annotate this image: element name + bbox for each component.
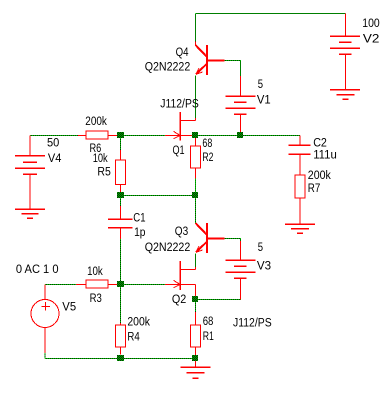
svg-text:Q2: Q2 [172,292,186,306]
svg-text:C1: C1 [133,210,145,224]
svg-text:200k: 200k [308,168,332,182]
svg-text:J112/PS: J112/PS [233,316,272,330]
svg-text:0 AC 1 0: 0 AC 1 0 [16,262,59,276]
svg-text:111u: 111u [313,148,337,162]
svg-text:68: 68 [203,314,214,328]
svg-text:Q2N2222: Q2N2222 [145,60,191,74]
svg-text:100: 100 [362,16,379,30]
svg-text:R5: R5 [97,165,110,179]
svg-text:68: 68 [202,136,212,150]
svg-text:V1: V1 [257,93,271,107]
svg-text:R7: R7 [308,181,321,195]
svg-text:Q1: Q1 [173,143,185,157]
svg-text:V2: V2 [363,31,380,45]
svg-text:Q3: Q3 [175,224,188,238]
svg-text:200k: 200k [85,114,107,128]
svg-text:J112/PS: J112/PS [160,97,199,111]
svg-text:Q4: Q4 [176,45,189,59]
svg-text:5: 5 [258,77,263,91]
svg-text:50: 50 [47,135,59,149]
svg-text:V5: V5 [62,300,76,314]
svg-text:V4: V4 [48,151,62,165]
svg-text:1p: 1p [134,225,145,239]
svg-text:5: 5 [258,240,263,254]
svg-text:R4: R4 [127,329,139,343]
svg-text:R2: R2 [202,150,213,164]
svg-text:10k: 10k [93,151,109,165]
svg-text:R3: R3 [90,291,102,305]
svg-text:Q2N2222: Q2N2222 [145,240,191,254]
svg-text:200k: 200k [127,315,150,329]
svg-text:V3: V3 [257,258,271,272]
svg-text:R1: R1 [203,329,214,343]
svg-text:10k: 10k [87,264,103,278]
